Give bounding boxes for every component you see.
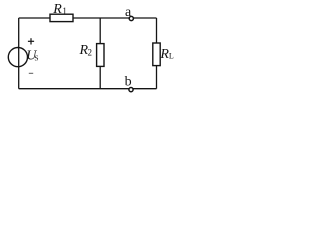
svg-text:b: b xyxy=(125,74,132,89)
svg-text:L: L xyxy=(169,52,174,61)
svg-text:1: 1 xyxy=(62,6,67,16)
wire bottom xyxy=(19,88,157,90)
plus sign of source xyxy=(28,38,34,44)
resistor R1 xyxy=(50,14,73,21)
svg-text:a: a xyxy=(125,5,132,20)
minus sign of source xyxy=(29,72,33,74)
resistor R2 xyxy=(97,44,104,67)
resistor RL xyxy=(153,43,160,66)
wire left xyxy=(18,18,20,89)
wire R2 branch xyxy=(99,18,101,89)
svg-text:S: S xyxy=(34,53,38,62)
node b terminal xyxy=(129,88,133,92)
node a terminal xyxy=(129,16,133,20)
svg-text:2: 2 xyxy=(88,48,93,58)
voltage source U_s xyxy=(8,48,27,67)
svg-text:R: R xyxy=(159,47,169,62)
wire top xyxy=(19,17,157,19)
svg-text:R: R xyxy=(52,2,62,17)
wire right xyxy=(156,18,158,89)
